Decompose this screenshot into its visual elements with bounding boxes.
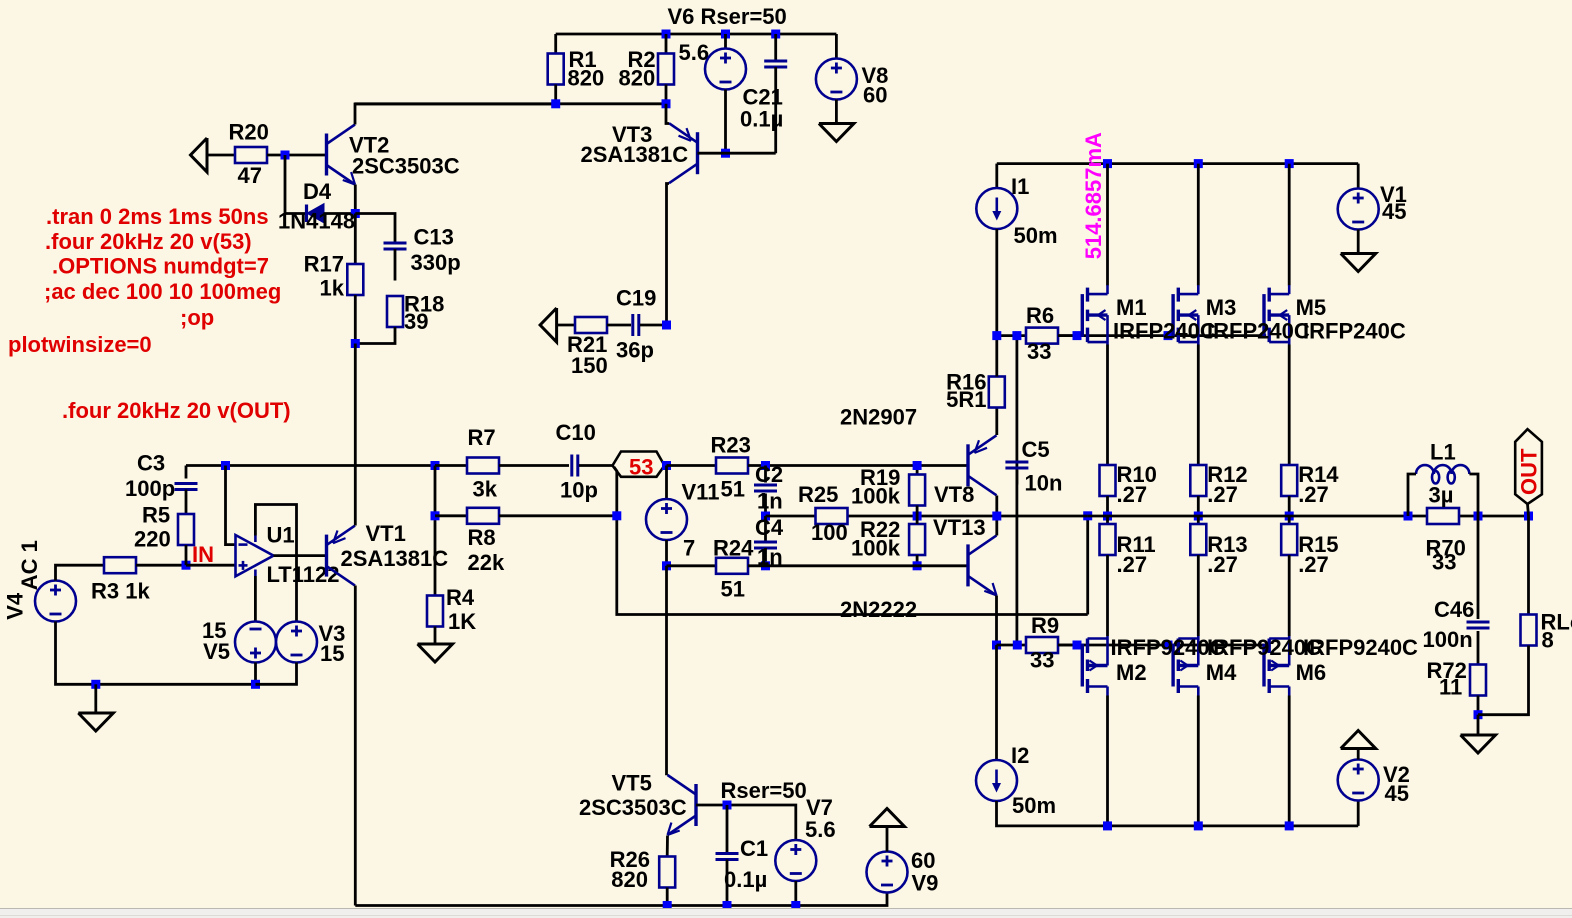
resistor R3 xyxy=(104,557,136,573)
current source I1 xyxy=(976,188,1017,229)
svg-text:.four 20kHz 20 v(OUT): .four 20kHz 20 v(OUT) xyxy=(62,398,291,423)
transistor VT8 (2N2907 pnp) xyxy=(968,435,997,495)
svg-text:VT5: VT5 xyxy=(612,770,652,795)
wire V4 bottom lead xyxy=(56,622,256,685)
svg-text:Rser=50: Rser=50 xyxy=(721,778,807,803)
svg-text:R17: R17 xyxy=(304,251,344,276)
svg-text:33: 33 xyxy=(1030,647,1054,672)
transistor VT1 (2SA1381C pnp) xyxy=(327,526,356,586)
svg-text:.27: .27 xyxy=(1298,482,1329,507)
svg-text:;op: ;op xyxy=(180,305,214,330)
svg-text:2SA1381C: 2SA1381C xyxy=(581,142,689,167)
node junction R1 bottom xyxy=(551,99,560,108)
svg-text:1N4148: 1N4148 xyxy=(278,208,355,233)
svg-text:33: 33 xyxy=(1432,549,1456,574)
wire R23 to VT8 base xyxy=(748,464,967,467)
resistor R26 xyxy=(659,857,675,888)
resistor R12 xyxy=(1190,465,1206,496)
resistor R13 xyxy=(1190,524,1206,555)
svg-text:R3 1k: R3 1k xyxy=(91,578,150,603)
wire V2 bottom lead xyxy=(1357,801,1360,826)
node junction M4 gate xyxy=(1164,641,1173,650)
wire C1 top lead xyxy=(726,805,729,854)
svg-text:M6: M6 xyxy=(1296,660,1327,685)
wire C21 bottom lead xyxy=(774,67,777,153)
wire feedback drop xyxy=(614,467,1088,615)
node junction collectors/output xyxy=(992,512,1001,521)
node junction ground tap xyxy=(91,680,100,689)
resistor R72 xyxy=(1470,665,1486,696)
wire VT13 emitter down xyxy=(995,596,998,646)
wire R19 bottom lead xyxy=(916,506,919,517)
wire I1 bottom lead xyxy=(995,229,998,336)
svg-text:51: 51 xyxy=(721,576,745,601)
node junction C19/VT3 collector xyxy=(662,321,671,330)
svg-text:R23: R23 xyxy=(711,432,751,457)
capacitor C4 xyxy=(754,542,777,548)
voltage source V6 xyxy=(705,49,746,90)
svg-text:1k: 1k xyxy=(320,275,345,300)
wire V5 bottom lead xyxy=(254,663,257,685)
resistor R1 xyxy=(548,54,564,85)
svg-text:V4: V4 xyxy=(3,592,28,620)
wire top rail (V+ drains) xyxy=(997,162,1358,165)
node junction M1 drain xyxy=(1103,159,1112,168)
capacitor C19 xyxy=(633,314,639,336)
resistor R25 xyxy=(816,508,848,524)
voltage source V8 xyxy=(816,59,857,100)
node junction R19 top xyxy=(913,461,922,470)
wire ground to R20 xyxy=(207,154,235,157)
resistor R17 xyxy=(347,264,363,295)
svg-text:45: 45 xyxy=(1382,199,1406,224)
svg-text:VT8: VT8 xyxy=(934,482,974,507)
svg-text:M3: M3 xyxy=(1206,295,1237,320)
wire node53 to V11 xyxy=(665,466,668,500)
ground flag (left) at R20 xyxy=(191,138,208,172)
wire R7/R8 vertical xyxy=(434,466,437,596)
wire C19 to node xyxy=(640,324,667,327)
svg-text:5.6: 5.6 xyxy=(805,817,836,842)
resistor R18 xyxy=(387,296,403,327)
voltage source V1 xyxy=(1338,189,1379,230)
capacitor C1 xyxy=(716,854,739,860)
mosfet M5 (IRFP240C nmos) xyxy=(1264,285,1289,345)
resistor R70 xyxy=(1427,508,1459,524)
voltage source V5 xyxy=(235,622,276,663)
svg-text:OUT: OUT xyxy=(1517,448,1542,495)
svg-text:I2: I2 xyxy=(1011,743,1029,768)
node junction C5 top xyxy=(1012,331,1021,340)
resistor R5 xyxy=(178,514,194,545)
wire R3 to IN xyxy=(136,564,186,567)
wire R7 left lead xyxy=(435,464,467,467)
svg-text:I1: I1 xyxy=(1011,174,1029,199)
capacitor C3 xyxy=(175,484,198,490)
resistor R14 xyxy=(1281,465,1297,496)
svg-text:2SC3503C: 2SC3503C xyxy=(352,153,460,178)
wire ground stem xyxy=(94,684,97,713)
inductor L1 xyxy=(1416,465,1469,483)
wire R8 left lead xyxy=(435,514,467,517)
node junction R19/R22 xyxy=(913,512,922,521)
wire V6 top rail xyxy=(556,33,837,36)
svg-text:C1: C1 xyxy=(740,836,768,861)
wire VT3 emitter up xyxy=(666,104,669,124)
svg-text:820: 820 xyxy=(568,65,605,90)
node junction R2 bottom/VT3 emitter xyxy=(662,99,671,108)
resistor RLoad xyxy=(1521,615,1537,646)
wire R17 bottom xyxy=(354,295,357,344)
wire C46 branch xyxy=(1477,516,1480,619)
node junction R22 bottom xyxy=(913,561,922,570)
svg-text:R24: R24 xyxy=(713,535,754,560)
wire upper gate bus xyxy=(997,334,1083,337)
wire R2 bottom lead xyxy=(665,85,668,104)
svg-text:plotwinsize=0: plotwinsize=0 xyxy=(8,332,152,357)
resistor R19 xyxy=(909,475,925,506)
node junction M4 drain xyxy=(1194,821,1203,830)
wire M5 source wire xyxy=(1288,345,1291,466)
resistor R20 xyxy=(235,147,267,163)
wire R20 to VT2 base xyxy=(267,154,326,157)
svg-text:.four 20kHz 20 v(53): .four 20kHz 20 v(53) xyxy=(45,229,252,254)
wire 7 to R24 xyxy=(667,564,717,567)
wire IN to opamp + xyxy=(186,564,236,567)
wire C3 to R5 xyxy=(185,490,188,515)
svg-text:1K: 1K xyxy=(448,609,476,634)
wire C3/R7 row wire xyxy=(185,464,188,467)
node junction C2/C4 mid xyxy=(761,512,770,521)
svg-text:.27: .27 xyxy=(1117,482,1148,507)
ground at V1 xyxy=(1341,254,1376,272)
svg-text:8: 8 xyxy=(1542,627,1554,652)
node junction R14/R15 xyxy=(1285,512,1294,521)
capacitor C5 xyxy=(1005,462,1028,468)
node junction IN xyxy=(182,561,191,570)
node junction R8/feedback xyxy=(612,511,621,520)
transistor VT5 (2SC3503C npn) xyxy=(668,775,697,835)
wire R72 bottom xyxy=(1477,696,1480,715)
ground flag (up) at V9 xyxy=(870,809,905,827)
capacitor C2 xyxy=(754,485,777,491)
svg-text:5R1: 5R1 xyxy=(946,387,986,412)
svg-text:.27: .27 xyxy=(1298,552,1329,577)
node junction C1 bottom xyxy=(723,901,732,910)
node junction V6 bottom xyxy=(721,149,730,158)
wire C3 top xyxy=(185,466,188,479)
wire output rail left xyxy=(766,515,1088,518)
node junction L1 right xyxy=(1474,512,1483,521)
resistor R22 xyxy=(909,524,925,555)
wire V11 bottom lead xyxy=(665,540,668,566)
node junction OUT xyxy=(1524,512,1533,521)
svg-text:;ac dec 100 10 100meg: ;ac dec 100 10 100meg xyxy=(44,279,281,304)
voltage source V3 xyxy=(276,622,317,663)
wire VT1 collector down xyxy=(354,586,357,906)
svg-text:M1: M1 xyxy=(1116,295,1147,320)
wire gate bus right xyxy=(1058,334,1266,337)
svg-text:VT13: VT13 xyxy=(933,515,986,540)
wire R12 bottom lead xyxy=(1197,496,1200,516)
capacitor C13 xyxy=(384,243,407,249)
wire R13 bottom lead xyxy=(1197,555,1200,636)
wire M4 drain wire xyxy=(1197,696,1200,826)
wire I2 bottom lead xyxy=(997,801,1359,826)
node junction M3 drain xyxy=(1194,159,1203,168)
svg-text:2N2907: 2N2907 xyxy=(840,404,917,429)
node junction C4/R24 xyxy=(761,561,770,570)
svg-text:3k: 3k xyxy=(473,476,498,501)
node junction inv input tap xyxy=(221,461,230,470)
capacitor C46 xyxy=(1467,622,1490,628)
svg-text:36p: 36p xyxy=(616,337,654,362)
wire M5 drain wire xyxy=(1288,164,1291,286)
resistor R16 xyxy=(989,377,1005,408)
svg-text:51: 51 xyxy=(721,476,745,501)
svg-text:39: 39 xyxy=(404,309,428,334)
wire ground stem R72 xyxy=(1477,715,1480,735)
svg-text:.tran 0 2ms 1ms 50ns: .tran 0 2ms 1ms 50ns xyxy=(46,204,269,229)
port flag OUT xyxy=(1515,429,1542,504)
wire VT5 collector line xyxy=(665,566,668,776)
node junction R23/C2 xyxy=(761,461,770,470)
wire C4 bottom lead xyxy=(764,548,767,566)
svg-text:IRFP9240C: IRFP9240C xyxy=(1303,635,1418,660)
node junction M1 gate xyxy=(1073,331,1082,340)
wire V7 bottom lead xyxy=(794,881,797,906)
svg-text:15: 15 xyxy=(320,641,344,666)
resistor R9 xyxy=(1026,637,1058,653)
node junction M3 gate xyxy=(1164,331,1173,340)
node junction V6 top xyxy=(721,30,730,39)
node junction node 53 xyxy=(662,461,671,470)
svg-text:R6: R6 xyxy=(1026,303,1054,328)
svg-text:0.1µ: 0.1µ xyxy=(724,867,767,892)
resistor R24 xyxy=(716,558,748,574)
wire C5 line xyxy=(1016,336,1019,485)
wire R22 top lead xyxy=(916,516,919,524)
svg-text:5.6: 5.6 xyxy=(679,40,710,65)
wire C46 to R72 xyxy=(1477,631,1480,665)
wire R13 top lead xyxy=(1197,516,1200,524)
wire R11 bottom lead xyxy=(1106,555,1109,636)
diode D4 (1N4148) xyxy=(307,205,324,223)
svg-text:M5: M5 xyxy=(1296,295,1327,320)
voltage source V4 (AC 1) xyxy=(35,581,76,622)
transistor VT13 (2N2222 npn) xyxy=(968,535,997,595)
resistor R15 xyxy=(1281,524,1297,555)
svg-text:.27: .27 xyxy=(1117,552,1148,577)
svg-text:820: 820 xyxy=(619,65,656,90)
node junction M2 drain xyxy=(1103,821,1112,830)
svg-text:IN: IN xyxy=(192,542,214,567)
wire R10 bottom lead xyxy=(1106,496,1109,516)
wire C5 lower line xyxy=(1016,470,1019,645)
wire VT13 collector up xyxy=(995,516,998,536)
wire C1 bottom lead xyxy=(726,860,729,906)
wire C21 top lead xyxy=(774,34,777,61)
capacitor C10 xyxy=(572,455,578,477)
wire V2 top stem xyxy=(1357,749,1360,760)
svg-text:VT1: VT1 xyxy=(366,521,406,546)
node junction R12/R13 xyxy=(1194,512,1203,521)
wire inv input drop xyxy=(226,466,236,545)
svg-text:10n: 10n xyxy=(1025,470,1063,495)
node junction R17/R18 xyxy=(351,339,360,348)
svg-text:V6 Rser=50: V6 Rser=50 xyxy=(668,4,787,29)
mosfet M3 (IRFP240C nmos) xyxy=(1173,285,1198,345)
svg-text:1n: 1n xyxy=(757,488,783,513)
wire R22 bottom lead xyxy=(916,555,919,566)
node junction C1 top xyxy=(723,801,732,810)
wire R11 top lead xyxy=(1106,516,1109,524)
node junction R10/R11 xyxy=(1103,512,1112,521)
svg-text:53: 53 xyxy=(629,455,653,480)
wire input row xyxy=(186,464,435,467)
wire R2 top lead xyxy=(665,34,668,54)
mosfet M1 (IRFP240C nmos) xyxy=(1082,285,1107,345)
wire R4 bottom xyxy=(434,627,437,645)
svg-text:11: 11 xyxy=(1439,674,1462,699)
node junction feedback/output rail xyxy=(1083,511,1092,520)
wire R26 bottom xyxy=(666,888,669,906)
svg-text:7: 7 xyxy=(683,535,695,560)
svg-text:47: 47 xyxy=(238,163,262,188)
current source I2 xyxy=(976,760,1017,801)
capacitor C21 xyxy=(764,61,787,67)
node junction R7 left xyxy=(431,461,440,470)
mosfet M6 (IRFP9240C pmos) xyxy=(1264,636,1289,696)
svg-text:R4: R4 xyxy=(446,585,475,610)
wire VT5 emitter to R26 xyxy=(666,836,669,857)
ground at R4 xyxy=(418,644,453,662)
node junction C21 top xyxy=(771,30,780,39)
node junction V11/R24 xyxy=(662,561,671,570)
wire VT1 emitter up xyxy=(354,344,357,526)
wire V1 bottom lead xyxy=(1357,230,1360,254)
wire RL branch xyxy=(1527,516,1530,615)
wire R19 top lead xyxy=(916,466,919,475)
svg-text:M2: M2 xyxy=(1116,660,1147,685)
svg-text:.27: .27 xyxy=(1207,552,1238,577)
wire ground to R21 xyxy=(557,324,575,327)
svg-text:IRFP240C: IRFP240C xyxy=(1303,318,1406,343)
wire R1 top lead xyxy=(554,34,557,54)
wire M6 drain wire xyxy=(1288,696,1291,826)
svg-text:100k: 100k xyxy=(851,535,901,560)
window bottom strip xyxy=(0,909,1572,918)
mosfet M2 (IRFP9240C pmos) xyxy=(1082,636,1107,696)
svg-text:330p: 330p xyxy=(411,250,461,275)
node junction M2 gate xyxy=(1073,641,1082,650)
node junction V7 bottom xyxy=(791,901,800,910)
wire RL bottom xyxy=(1478,646,1529,715)
ground at V8 xyxy=(819,124,854,142)
wire V8 top lead xyxy=(835,34,838,59)
svg-text:C46: C46 xyxy=(1434,597,1474,622)
wire U1 output xyxy=(274,554,327,557)
wire output rail right xyxy=(1088,515,1529,518)
svg-text:V11: V11 xyxy=(682,479,720,504)
wire VT5 base wire xyxy=(696,805,796,840)
svg-text:LT1122: LT1122 xyxy=(267,562,340,587)
wire R7 right to C10 xyxy=(499,464,569,467)
wire V6 top lead xyxy=(724,34,727,49)
ground at R72 xyxy=(1461,735,1496,753)
ground flag (up) at V2 xyxy=(1341,731,1376,749)
svg-text:C10: C10 xyxy=(556,420,596,445)
wire R1/R2 bottom wire xyxy=(354,102,666,105)
wire R14 bottom lead xyxy=(1288,496,1291,516)
wire M3 source wire xyxy=(1197,345,1200,466)
svg-text:514.6857mA: 514.6857mA xyxy=(1081,132,1106,259)
node junction I1/R16 xyxy=(992,331,1001,340)
node junction R20/D4 xyxy=(281,151,290,160)
svg-text:.27: .27 xyxy=(1207,482,1238,507)
svg-text:820: 820 xyxy=(611,867,648,892)
wire V4 top lead xyxy=(56,565,105,580)
wire M3 drain wire xyxy=(1197,164,1200,286)
wire C2 bottom lead xyxy=(764,494,767,517)
svg-text:R5: R5 xyxy=(142,502,170,527)
svg-text:IRFP240C: IRFP240C xyxy=(1113,318,1216,343)
node junction M6 drain xyxy=(1285,821,1294,830)
wire C2 top lead xyxy=(764,466,767,483)
voltage source V7 xyxy=(775,840,816,881)
svg-text:33: 33 xyxy=(1027,339,1051,364)
svg-text:10p: 10p xyxy=(560,477,598,502)
wire VT3 collector down xyxy=(667,184,670,326)
wire I1 top lead xyxy=(995,164,998,188)
svg-text:220: 220 xyxy=(134,526,171,551)
wire C13 to R18 xyxy=(394,249,397,281)
transistor VT3 (2SA1381C pnp) xyxy=(669,123,698,183)
wire bottom rail xyxy=(355,893,887,906)
svg-text:C19: C19 xyxy=(616,285,656,310)
svg-text:100: 100 xyxy=(811,520,848,545)
svg-text:60: 60 xyxy=(863,82,887,107)
wire I2 top lead xyxy=(995,645,998,760)
node junction M5 drain xyxy=(1285,159,1294,168)
wire V9 top stem xyxy=(886,827,889,852)
svg-text:C3: C3 xyxy=(137,450,165,475)
node junction V5 bottom xyxy=(251,680,260,689)
wire M2 drain wire xyxy=(1106,696,1109,826)
node junction L1 left xyxy=(1404,512,1413,521)
svg-text:100p: 100p xyxy=(125,476,175,501)
wire V8 bottom lead xyxy=(835,100,838,124)
wire L1 left lead xyxy=(1408,474,1416,516)
resistor R10 xyxy=(1100,465,1116,496)
wire R18 bottom xyxy=(355,327,395,344)
svg-text:R20: R20 xyxy=(229,119,269,144)
svg-text:2SC3503C: 2SC3503C xyxy=(579,795,687,820)
svg-text:U1: U1 xyxy=(267,522,295,547)
wire D4 anode to node xyxy=(324,212,356,215)
node junction R2 top xyxy=(662,30,671,39)
ground flag (left) at R21 xyxy=(540,308,557,342)
wire R8 right xyxy=(499,514,617,517)
svg-text:L1: L1 xyxy=(1430,439,1456,464)
svg-text:22k: 22k xyxy=(468,550,505,575)
svg-text:2N2222: 2N2222 xyxy=(840,597,917,622)
resistor R23 xyxy=(716,458,748,474)
svg-text:3µ: 3µ xyxy=(1429,482,1454,507)
voltage source V2 xyxy=(1338,760,1379,801)
wire M1 source wire xyxy=(1106,345,1109,466)
net flag node 53 xyxy=(613,452,665,480)
